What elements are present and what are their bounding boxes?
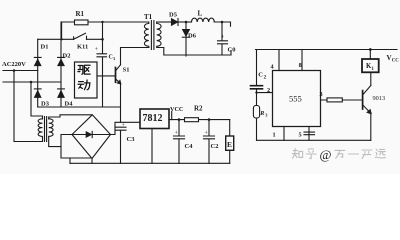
transformer T1 core: [151, 21, 154, 50]
wire emitter to rail: [370, 113, 372, 140]
transformer T2 secondary: [49, 119, 53, 137]
wire K1 top: [369, 50, 371, 60]
svg-text:8: 8: [299, 62, 302, 69]
svg-text:5: 5: [299, 132, 302, 139]
svg-text:T1: T1: [144, 13, 153, 21]
wire bottom rail left circuit: [70, 162, 230, 164]
terminal ticks output: [230, 22, 233, 55]
bridge rectifier diamond: [72, 115, 111, 159]
svg-text:AC220V: AC220V: [2, 61, 26, 68]
vcc tick left: [171, 112, 173, 120]
inductor L: [192, 18, 215, 22]
char wan: [335, 150, 345, 158]
svg-text:4: 4: [271, 64, 274, 71]
svg-text:C4: C4: [185, 143, 194, 150]
relay K1 box: [362, 59, 379, 72]
svg-text:2: 2: [267, 87, 270, 94]
wire ground rail 555: [257, 139, 371, 141]
svg-text:E: E: [227, 140, 232, 149]
wire vcc rail 555: [256, 49, 398, 51]
svg-text:K11: K11: [77, 44, 88, 51]
wire pin5: [308, 127, 310, 141]
svg-text:D6: D6: [188, 33, 197, 40]
label drive text dong: [78, 80, 90, 90]
char yuan: [375, 149, 385, 158]
svg-text:C3: C3: [127, 136, 136, 143]
wire T2 secondary top to bridge: [49, 115, 92, 119]
transistor S1: [115, 68, 117, 83]
svg-text:CC: CC: [392, 59, 399, 64]
wire tap 2 down to T2: [31, 82, 43, 119]
svg-text:D2: D2: [63, 53, 71, 60]
wire pin1: [283, 127, 285, 141]
svg-text:D5: D5: [169, 12, 178, 19]
diode D2: [58, 22, 65, 107]
wire pin2: [257, 92, 273, 94]
wire bridge left leg: [61, 135, 91, 159]
label drive text qu: [78, 65, 90, 90]
wire bridge right to 7812: [111, 122, 141, 134]
svg-text:555: 555: [289, 94, 302, 104]
svg-text:R: R: [259, 110, 264, 117]
wire T2 secondary bottom: [49, 136, 61, 146]
wire pin4: [278, 50, 280, 71]
capacitor C2a: [204, 120, 215, 164]
bridge internal diode: [72, 134, 111, 136]
resistor R3: [253, 106, 259, 119]
svg-text:C0: C0: [228, 47, 236, 54]
diode D6: [185, 22, 187, 56]
diode D5: [171, 19, 178, 26]
resistor base: [327, 98, 342, 102]
svg-text:D3: D3: [41, 101, 50, 108]
svg-text:3: 3: [265, 113, 268, 118]
svg-text:D4: D4: [65, 101, 74, 108]
capacitor C3: [115, 127, 126, 163]
char hu: [306, 149, 316, 159]
char zhi: [292, 149, 302, 159]
box driver unit: [75, 62, 98, 98]
svg-text:3: 3: [320, 91, 323, 98]
transformer T1 primary: [144, 22, 148, 48]
svg-text:+: +: [221, 35, 225, 41]
watermark zhihu: [292, 147, 385, 162]
wire pin8: [301, 50, 303, 71]
svg-text:R1: R1: [76, 10, 85, 18]
diode D4: [58, 88, 65, 90]
transformer T1 secondary: [157, 22, 231, 55]
transformer T2 core: [45, 117, 47, 142]
resistor R2: [185, 118, 199, 122]
resistor R1: [75, 20, 89, 25]
svg-text:R2: R2: [194, 105, 203, 113]
svg-text:9013: 9013: [373, 95, 386, 102]
wire pin3: [321, 99, 363, 101]
wire node bus y=39.3: [38, 38, 103, 40]
wire C2-R3 chain: [256, 50, 258, 141]
regulator 7812 box: [140, 109, 169, 129]
wire gate: [97, 75, 116, 77]
wire AC line 2: [3, 81, 61, 83]
wire S1 emitter down: [120, 84, 122, 123]
wire right rail x=102.5: [102, 22, 104, 107]
capacitor C1: [97, 54, 107, 57]
svg-text:1: 1: [113, 56, 116, 61]
char yan: [362, 150, 372, 159]
capacitor C2: [251, 86, 263, 89]
svg-text:VCC: VCC: [170, 106, 183, 113]
wire 7812 output: [169, 119, 230, 121]
svg-text:7812: 7812: [143, 113, 163, 124]
svg-text:V: V: [387, 54, 392, 62]
svg-text:L: L: [198, 10, 203, 18]
wire collector to K1: [370, 72, 372, 85]
capacitor pin5: [304, 132, 315, 135]
wire AC line 1: [3, 70, 38, 72]
svg-text:@: @: [320, 147, 332, 162]
transistor 9013: [362, 91, 364, 109]
svg-text:D1: D1: [41, 44, 49, 51]
wire step to rail: [69, 158, 71, 163]
relay contact K11: [74, 33, 87, 39]
wire 7812 ground pin: [151, 129, 153, 164]
svg-text:2: 2: [264, 76, 267, 81]
wire bridge bottom stub: [91, 159, 93, 164]
capacitor C0: [218, 22, 228, 55]
wire top bus y=22: [62, 21, 149, 23]
wire secondary top: [157, 21, 172, 23]
svg-text:C: C: [258, 72, 263, 79]
wire bridge minus rail y=107: [38, 106, 121, 108]
diode D3: [34, 88, 41, 90]
load box E: [229, 120, 231, 136]
wire tap 1 down to T2: [14, 71, 43, 142]
timer 555 box: [273, 71, 321, 127]
svg-text:C2: C2: [211, 143, 219, 150]
svg-text:+: +: [95, 47, 99, 53]
svg-text:1: 1: [273, 132, 276, 139]
wire R1 left rail: [61, 22, 63, 39]
char yi: [348, 153, 358, 155]
transformer T2 primary: [38, 119, 42, 142]
wire S1 collector up: [121, 48, 149, 65]
diode D1: [34, 39, 41, 107]
svg-text:S1: S1: [123, 67, 130, 74]
capacitor C4: [174, 120, 185, 164]
